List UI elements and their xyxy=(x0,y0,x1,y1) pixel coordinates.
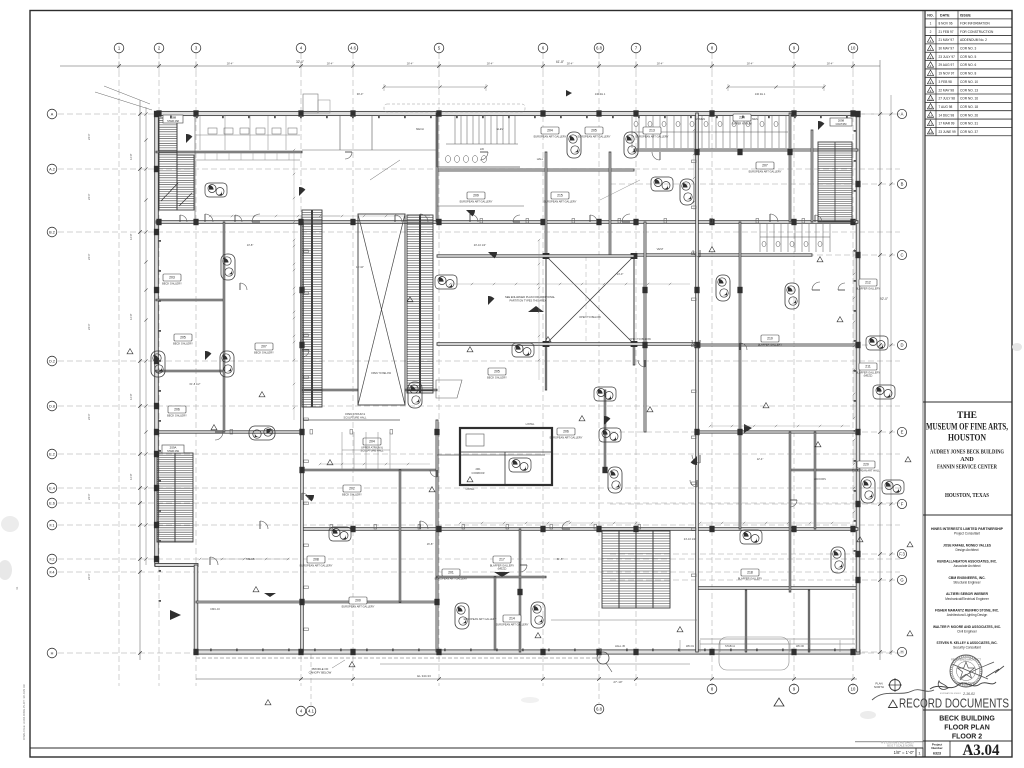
svg-text:2: 2 xyxy=(930,30,932,34)
svg-text:Structural Engineer: Structural Engineer xyxy=(953,581,981,585)
top-left leader diagonals xyxy=(95,86,640,200)
svg-text:3 FEB 98: 3 FEB 98 xyxy=(939,80,953,84)
svg-text:220: 220 xyxy=(863,463,869,467)
svg-text:92'-0": 92'-0" xyxy=(880,297,888,301)
column capsule 11 xyxy=(151,351,165,377)
grid bubble 7 top xyxy=(631,43,641,53)
grid bubble E.4 left xyxy=(47,483,57,493)
svg-text:COR NO. 10: COR NO. 10 xyxy=(960,80,978,84)
column capsule 3 xyxy=(531,602,545,628)
column capsule 7 xyxy=(831,547,845,573)
svg-text:12'-8": 12'-8" xyxy=(129,393,133,400)
svg-text:EUROPEAN ART GALLERY: EUROPEAN ART GALLERY xyxy=(496,623,529,627)
svg-text:7 AUG 98: 7 AUG 98 xyxy=(939,105,953,109)
svg-text:F.1: F.1 xyxy=(49,524,54,528)
room tag stair 2S9 xyxy=(162,445,184,453)
mech room heavy walls xyxy=(460,428,552,485)
revision table xyxy=(925,11,1012,136)
sheet title xyxy=(939,716,995,741)
svg-text:DATE: DATE xyxy=(940,13,950,17)
interior wall y170 top galleries xyxy=(437,169,634,171)
porch lines bottom right xyxy=(700,639,855,644)
svg-text:206: 206 xyxy=(563,430,569,434)
svg-text:REGISTERED ARCHITECT: REGISTERED ARCHITECT xyxy=(951,659,981,662)
room tag 213 EUROPEAN ART GALLERY xyxy=(636,127,669,139)
svg-text:24'-0": 24'-0" xyxy=(87,193,91,200)
restroom stalls top band xyxy=(632,116,788,148)
room tag 200 EUROPEAN ART GALLERY xyxy=(342,597,375,609)
stair 2S1 top-right xyxy=(818,142,852,222)
interior wall y255 right wing xyxy=(634,254,812,256)
svg-text:NO.: NO. xyxy=(927,13,933,17)
grid bubble C right xyxy=(897,250,906,259)
svg-text:EUROPEAN ART GALLERY: EUROPEAN ART GALLERY xyxy=(636,135,669,139)
interior wall x302 major xyxy=(301,222,304,652)
svg-text:41: 41 xyxy=(15,586,19,590)
svg-text:24'-0": 24'-0" xyxy=(87,323,91,330)
room tag coat room top-right xyxy=(830,118,852,126)
column capsule 2 xyxy=(785,283,799,309)
room tag 204 EUROPEAN ART GALLERY xyxy=(534,127,567,139)
stair 2S9 west mid xyxy=(157,453,193,542)
svg-text:EUROPEAN ART GALLERY: EUROPEAN ART GALLERY xyxy=(300,564,333,568)
detail callout 1 xyxy=(435,275,457,289)
svg-text:213: 213 xyxy=(649,129,655,133)
svg-text:LINTEL: LINTEL xyxy=(466,487,475,491)
svg-text:VEST: VEST xyxy=(657,247,664,251)
revision delta triangles on plan xyxy=(127,247,913,705)
svg-text:WD.00: WD.00 xyxy=(796,644,804,648)
canopy rounded outline bottom right xyxy=(719,637,789,670)
svg-text:207: 207 xyxy=(261,345,267,349)
svg-text:13'-8": 13'-8" xyxy=(247,243,254,247)
room tag 203 BECK GALLERY xyxy=(162,274,182,286)
door 7 xyxy=(215,432,223,440)
grid bubble 4 top xyxy=(296,43,306,53)
escalator landing east xyxy=(436,380,462,398)
stair 2S5 east mid xyxy=(602,531,670,608)
svg-text:23 JULY 97: 23 JULY 97 xyxy=(939,55,956,59)
svg-text:12'-8": 12'-8" xyxy=(129,153,133,160)
grid bubble F.3 right xyxy=(897,549,906,558)
dimension line top xyxy=(60,60,880,71)
interior wall x520 lower xyxy=(519,529,521,652)
interior leader annotations xyxy=(190,92,827,621)
room tag 218 BLAFFER GALLERY xyxy=(738,569,763,581)
grid bubble F right xyxy=(897,499,906,508)
grid bubble A.2 left xyxy=(47,164,57,174)
svg-text:FOR INFORMATION: FOR INFORMATION xyxy=(960,21,990,25)
interior wall x634 below court xyxy=(633,344,635,365)
exterior wall top xyxy=(155,111,860,115)
grid bubble 2 top xyxy=(154,43,164,53)
interior tick clusters xyxy=(199,129,855,560)
room tag 217 BLAFFER GALLERY xyxy=(490,556,515,571)
svg-text:CORRIDOR: CORRIDOR xyxy=(471,472,484,475)
svg-text:A3.04: A3.04 xyxy=(963,742,1000,759)
svg-text:Civil Engineer: Civil Engineer xyxy=(957,629,978,633)
door 15 xyxy=(812,282,820,290)
column capsule 10 xyxy=(220,351,234,377)
door 14 xyxy=(652,152,660,160)
svg-text:AND: AND xyxy=(960,456,974,463)
door 12 xyxy=(210,557,218,565)
interior wall atrium x605 xyxy=(604,390,606,470)
exterior wall bottom xyxy=(194,650,860,654)
detail callout 12 xyxy=(205,183,227,197)
interior wall y256 xyxy=(437,255,634,257)
svg-text:32'-0": 32'-0" xyxy=(296,60,304,64)
svg-text:10: 10 xyxy=(851,46,856,51)
restroom stalls second band xyxy=(760,224,830,252)
svg-text:COR NO. 31: COR NO. 31 xyxy=(960,122,978,126)
exterior wall left step xyxy=(155,564,198,567)
door 16 xyxy=(692,340,700,348)
open to below escalator shaft xyxy=(358,214,405,405)
grid bubble D.8 left xyxy=(47,401,57,411)
svg-text:D: D xyxy=(900,343,903,348)
circle marker at column 599 bottom xyxy=(597,652,612,672)
svg-text:218: 218 xyxy=(747,571,753,575)
svg-text:G: G xyxy=(900,578,903,583)
column capsule 4 xyxy=(455,603,469,629)
grid bubble 6 top xyxy=(538,43,548,53)
detail callout 2 xyxy=(512,343,534,357)
svg-text:211: 211 xyxy=(865,365,871,369)
interior wall x610 upper xyxy=(609,152,611,256)
door 4 xyxy=(470,214,478,222)
svg-text:30 MAY 97: 30 MAY 97 xyxy=(939,47,955,51)
interior wall x645 xyxy=(644,222,646,432)
column capsule 6 xyxy=(861,477,875,503)
svg-text:12'-8": 12'-8" xyxy=(129,313,133,320)
svg-text:19'-10": 19'-10" xyxy=(356,265,364,269)
svg-text:EUROPEAN ART HALL: EUROPEAN ART HALL xyxy=(852,469,880,473)
svg-text:Project Consultant: Project Consultant xyxy=(954,532,980,536)
grid bubble E right xyxy=(897,427,906,436)
door 6 xyxy=(770,214,778,222)
grid bubble 10 bottom xyxy=(848,684,858,694)
svg-text:6.8: 6.8 xyxy=(596,707,602,712)
svg-text:ISSUE: ISSUE xyxy=(960,13,971,17)
svg-text:E.2: E.2 xyxy=(49,453,55,457)
svg-text:1: 1 xyxy=(930,21,932,25)
column capsule 5 xyxy=(408,382,422,408)
svg-text:ELEV: ELEV xyxy=(497,127,504,131)
door 9 xyxy=(420,521,428,529)
interior wall y371 left strip xyxy=(156,370,224,372)
detail callout 9 xyxy=(873,385,895,399)
svg-text:CMU-16: CMU-16 xyxy=(210,607,220,611)
grid bubble H left xyxy=(47,648,57,658)
svg-text:Architectural Lighting Design: Architectural Lighting Design xyxy=(947,613,988,617)
interior wall x790 lower xyxy=(789,432,791,592)
svg-text:23 JUNE 99: 23 JUNE 99 xyxy=(939,130,956,134)
left margin dim texts xyxy=(87,133,133,580)
svg-text:12'-8": 12'-8" xyxy=(129,233,133,240)
room tag 211 BLAFFER GALLERY xyxy=(856,363,881,378)
top margin dim texts xyxy=(227,62,834,66)
interior wall x809 porch xyxy=(808,590,809,652)
svg-text:LINTEL: LINTEL xyxy=(526,422,535,426)
bubble stems bottom xyxy=(311,654,599,705)
svg-text:OPEN ATRIUM &: OPEN ATRIUM & xyxy=(345,412,365,416)
svg-text:COR NO. 16: COR NO. 16 xyxy=(960,97,978,101)
svg-text:SEE ENLARGED PLAN FOR ADDITION: SEE ENLARGED PLAN FOR ADDITIONAL xyxy=(505,295,556,299)
open to below X-braced court xyxy=(543,253,638,347)
svg-text:STEVEN R. KELLEY & ASSOCIATES,: STEVEN R. KELLEY & ASSOCIATES, INC. xyxy=(937,641,998,645)
svg-text:27'-10": 27'-10" xyxy=(613,680,622,684)
dimension line bottom xyxy=(196,664,857,684)
svg-text:140.2H.1: 140.2H.1 xyxy=(595,92,606,96)
svg-text:209: 209 xyxy=(473,194,479,198)
grid bubble 8 bottom xyxy=(707,684,717,694)
svg-text:FOR CONSTRUCTION: FOR CONSTRUCTION xyxy=(960,30,994,34)
svg-text:A: A xyxy=(901,112,904,117)
svg-text:Associate Architect: Associate Architect xyxy=(954,564,981,568)
svg-text:24'-0": 24'-0" xyxy=(87,573,91,580)
svg-text:D.8: D.8 xyxy=(49,405,55,409)
detail callout 11 xyxy=(882,480,904,494)
room tag 205 BECK GALLERY xyxy=(173,334,193,346)
svg-text:24'-0": 24'-0" xyxy=(87,133,91,140)
svg-text:E: E xyxy=(901,430,904,435)
svg-text:4.1: 4.1 xyxy=(308,709,314,714)
consultants list xyxy=(931,527,1004,650)
column capsule 14 xyxy=(680,179,694,205)
svg-text:COR NO. 3: COR NO. 3 xyxy=(960,47,977,51)
svg-text:F: F xyxy=(901,502,904,507)
misc bottom annotations xyxy=(615,640,840,652)
svg-text:BLAFFER GALLERY: BLAFFER GALLERY xyxy=(738,577,763,581)
interior wall y432 right wing xyxy=(697,431,858,433)
interior wall y390 atrium north east xyxy=(405,389,437,391)
svg-text:24'-0": 24'-0" xyxy=(87,253,91,260)
canopy profile below xyxy=(196,648,600,675)
door 10 xyxy=(562,521,570,529)
svg-text:COR NO. 37: COR NO. 37 xyxy=(960,130,978,134)
svg-text:6323: 6323 xyxy=(933,752,941,756)
svg-text:H: H xyxy=(51,652,54,656)
corridor line y206 xyxy=(437,205,524,207)
svg-text:21 FEB 97: 21 FEB 97 xyxy=(939,30,954,34)
grid bubble E.2 left xyxy=(47,449,57,459)
svg-text:21 MAY 97: 21 MAY 97 xyxy=(939,38,955,42)
svg-text:E.6: E.6 xyxy=(49,502,55,506)
svg-text:Mechanical/Electrical Engineer: Mechanical/Electrical Engineer xyxy=(945,597,990,601)
svg-text:27 JULY 98: 27 JULY 98 xyxy=(939,97,956,101)
room tag 224 UPPER ATRIUM xyxy=(732,114,751,126)
grid bubble 3 top xyxy=(191,43,201,53)
room tag 209 EUROPEAN ART GALLERY xyxy=(460,192,493,204)
interior wall x697 major xyxy=(696,113,699,652)
svg-text:EUROPEAN ART GALLERY: EUROPEAN ART GALLERY xyxy=(464,617,497,621)
svg-text:206: 206 xyxy=(174,408,180,412)
svg-text:10: 10 xyxy=(851,687,856,692)
interior wall y470 right wing xyxy=(790,469,858,471)
wall stud ticks top xyxy=(159,116,856,652)
door 1 xyxy=(205,214,213,222)
svg-text:HOUSTON, TEXAS: HOUSTON, TEXAS xyxy=(945,492,989,499)
interior wall x790 restroom xyxy=(789,113,791,222)
svg-text:FLOOR PLAN: FLOOR PLAN xyxy=(944,725,990,732)
detail callout 6 xyxy=(509,458,531,472)
svg-text:1/8" = 1'-0": 1/8" = 1'-0" xyxy=(894,750,915,755)
grid bubble G right xyxy=(897,575,906,584)
project title text xyxy=(926,410,1008,499)
svg-text:220: 220 xyxy=(480,148,485,151)
grid bubble 1 top xyxy=(114,43,124,53)
column capsule 9 xyxy=(221,254,235,280)
svg-text:Security Consultant: Security Consultant xyxy=(953,646,981,650)
svg-text:BECK GALLERY: BECK GALLERY xyxy=(254,351,274,355)
restroom block top middle xyxy=(437,116,520,167)
grid bubble 8 top xyxy=(707,43,717,53)
sheet number row xyxy=(931,741,999,759)
door 2 xyxy=(252,214,260,222)
scale note xyxy=(855,741,923,758)
interior wall long y529 xyxy=(302,528,858,531)
svg-text:8 NOV 96: 8 NOV 96 xyxy=(939,21,953,25)
svg-text:A.2: A.2 xyxy=(49,168,55,172)
svg-text:205: 205 xyxy=(180,336,186,340)
grid bubble D right xyxy=(897,340,906,349)
svg-text:BLAFFER GALLERY: BLAFFER GALLERY xyxy=(758,343,783,347)
record documents stamp xyxy=(889,696,1010,711)
svg-text:217: 217 xyxy=(499,558,505,562)
interior wall x812 stair hall xyxy=(811,130,813,222)
svg-text:OWG FILE: A304.DWG PLOT: 30: OWG FILE: A304.DWG PLOT: 30 JUN 99 xyxy=(22,684,26,740)
svg-text:STAIR 2S9: STAIR 2S9 xyxy=(167,450,179,453)
svg-text:9 DOORS: 9 DOORS xyxy=(814,477,826,481)
svg-text:BECK GALLERY: BECK GALLERY xyxy=(173,342,193,346)
svg-text:ADDENDUM No. 2: ADDENDUM No. 2 xyxy=(960,38,987,42)
grid bubble F.4 left xyxy=(47,567,57,577)
interior wall x437 lower xyxy=(436,420,438,652)
detail callout 8 xyxy=(866,336,888,350)
dimension line right xyxy=(878,60,892,660)
interior wall x815 segment xyxy=(814,432,816,529)
svg-text:FLOOR 2: FLOOR 2 xyxy=(952,734,982,741)
svg-text:EUROPEAN ART GALLERY: EUROPEAN ART GALLERY xyxy=(534,135,567,139)
svg-text:EUROPEAN ART GALLERY: EUROPEAN ART GALLERY xyxy=(550,436,583,440)
svg-text:204: 204 xyxy=(547,129,553,133)
stair 2S8 top-left xyxy=(159,113,195,222)
svg-text:F.3: F.3 xyxy=(899,552,905,557)
svg-text:F.4: F.4 xyxy=(49,571,54,575)
interior wall y345 right wing xyxy=(697,344,858,346)
svg-text:24'-0": 24'-0" xyxy=(87,413,91,420)
svg-text:HOUSTON: HOUSTON xyxy=(948,433,986,443)
svg-text:EUROPEAN ART GALLERY: EUROPEAN ART GALLERY xyxy=(578,135,611,139)
svg-text:28'-4": 28'-4" xyxy=(227,62,234,66)
column capsule 1 xyxy=(716,275,730,301)
room tag 206 EUROPEAN ART GALLERY xyxy=(550,428,583,440)
svg-text:CBM ENGINEERS, INC.: CBM ENGINEERS, INC. xyxy=(949,576,986,580)
grid bubble H right xyxy=(897,647,906,656)
room tag 207 EUROPEAN ART GALLERY xyxy=(749,162,782,174)
interior wall y390 atrium north west xyxy=(302,389,358,391)
svg-text:B: B xyxy=(901,182,904,187)
svg-text:202: 202 xyxy=(349,487,355,491)
svg-text:16'-8": 16'-8" xyxy=(427,542,434,546)
svg-text:39'-0": 39'-0" xyxy=(357,92,364,96)
svg-text:140 2H.1: 140 2H.1 xyxy=(755,92,766,96)
detail callout 7 xyxy=(599,428,621,442)
exterior wall left upper xyxy=(155,113,159,566)
interior wall y577 blaffer xyxy=(437,576,546,578)
svg-text:PARTITION TYPES THIS AREA: PARTITION TYPES THIS AREA xyxy=(510,299,547,303)
svg-text:SCULPTURE HALL: SCULPTURE HALL xyxy=(344,416,367,420)
svg-text:MECH: MECH xyxy=(416,127,424,131)
svg-text:61'-8": 61'-8" xyxy=(557,557,564,561)
svg-text:R 1 CUSTOM 1 RD 1948.27: R 1 CUSTOM 1 RD 1948.27 xyxy=(881,741,914,745)
svg-text:AUDREY JONES BECK BUILDING: AUDREY JONES BECK BUILDING xyxy=(930,449,1004,456)
svg-text:EUROPEAN ART GALLERY: EUROPEAN ART GALLERY xyxy=(460,200,493,204)
room tag 201 EUROPEAN ART GALLERY xyxy=(435,569,468,581)
svg-text:H: H xyxy=(900,650,903,655)
interior wall x740 xyxy=(739,222,741,529)
svg-text:UPPER ATRIUM: UPPER ATRIUM xyxy=(732,122,751,126)
svg-text:Design Architect: Design Architect xyxy=(955,548,978,552)
svg-text:COR NO. 8: COR NO. 8 xyxy=(960,72,977,76)
interior wall y420 segment xyxy=(302,419,400,421)
room tag 205 BECK GALLERY xyxy=(487,368,507,380)
svg-text:FANNIN SERVICE CENTER: FANNIN SERVICE CENTER xyxy=(937,464,997,471)
svg-text:BECK GALLERY: BECK GALLERY xyxy=(167,414,187,418)
title block section lines xyxy=(923,402,1012,741)
svg-text:28'-4": 28'-4" xyxy=(747,62,754,66)
svg-text:6.8: 6.8 xyxy=(596,46,602,51)
svg-text:20'-10 1/2": 20'-10 1/2" xyxy=(474,243,486,247)
misc fixtures top left rooms xyxy=(196,128,300,160)
svg-text:WALTER P. MOORE AND ASSOCIATES: WALTER P. MOORE AND ASSOCIATES, INC. xyxy=(933,625,1001,629)
grid bubble A right xyxy=(897,109,906,118)
svg-text:28'-4": 28'-4" xyxy=(327,62,334,66)
svg-text:STAIR 2S8: STAIR 2S8 xyxy=(167,120,179,123)
svg-text:C: C xyxy=(900,253,903,258)
interior wall main corridor y222 xyxy=(156,221,858,224)
grid bubble B.2 left xyxy=(47,227,57,237)
grid bubble E.6 left xyxy=(47,498,57,508)
interior wall y300 left strip xyxy=(156,299,224,301)
svg-text:BLAFFER GALLERY: BLAFFER GALLERY xyxy=(856,287,881,291)
grid bubble D.2 left xyxy=(47,356,57,366)
svg-text:STAB.11: STAB.11 xyxy=(725,644,736,648)
grid bubble B right xyxy=(897,179,906,188)
svg-text:EUROPEAN ART GALLERY: EUROPEAN ART GALLERY xyxy=(749,170,782,174)
svg-text:BECK GALLERY: BECK GALLERY xyxy=(162,282,182,286)
svg-text:FISHER MARANTZ RENFRO STONE, I: FISHER MARANTZ RENFRO STONE, INC. xyxy=(935,609,999,613)
svg-text:E.4: E.4 xyxy=(49,487,55,491)
svg-text:212: 212 xyxy=(865,281,871,285)
interior wall y432 left xyxy=(156,431,302,433)
room tag 212 BLAFFER GALLERY xyxy=(856,279,881,291)
wall niches and casework xyxy=(230,160,805,631)
room tag 215 EUROPEAN ART GALLERY xyxy=(544,192,577,204)
svg-text:ALTIERI SEBOR WIEBER: ALTIERI SEBOR WIEBER xyxy=(946,592,988,596)
svg-text:EUROPEAN ART GALLERY: EUROPEAN ART GALLERY xyxy=(544,200,577,204)
svg-text:HINES INTERESTS LIMITED PARTNE: HINES INTERESTS LIMITED PARTNERSHIP xyxy=(931,527,1004,531)
interior wall y602 gallery xyxy=(196,601,437,603)
grid bubble A left xyxy=(47,109,57,119)
svg-text:COAT RM: COAT RM xyxy=(836,123,847,126)
column capsule 13 xyxy=(624,132,638,158)
photocopy smudges xyxy=(0,343,1022,719)
grid bubble F.2 left xyxy=(47,554,57,564)
interior wall x495 blaffer xyxy=(494,577,496,650)
grid bubble 9 top xyxy=(789,43,799,53)
